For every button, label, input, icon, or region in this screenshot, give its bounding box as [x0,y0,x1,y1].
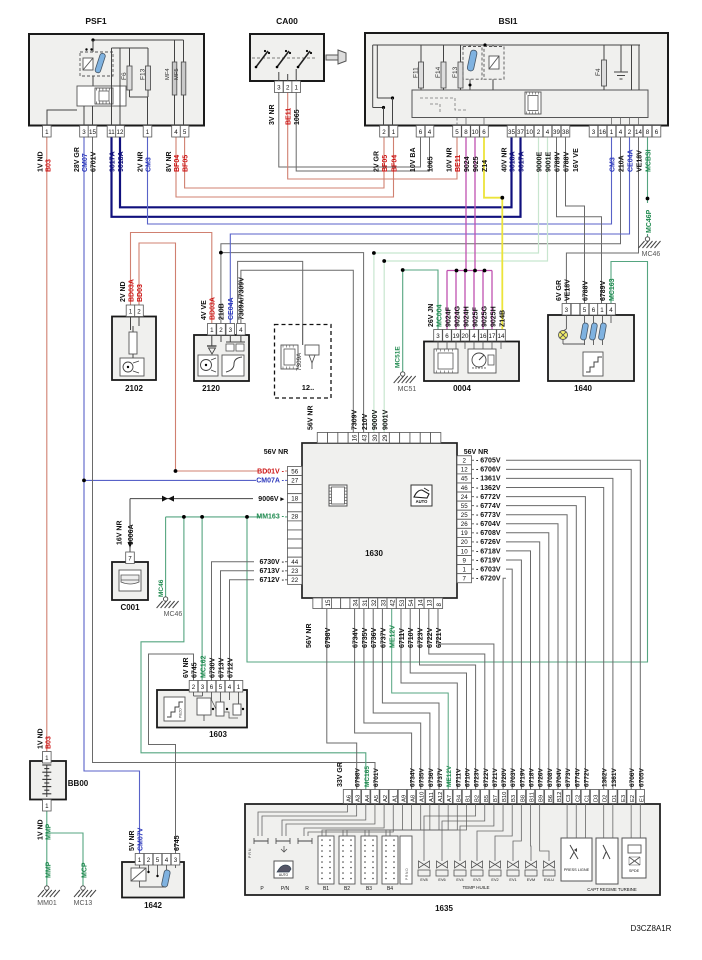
svg-text:P/N: P/N [281,886,290,892]
svg-text:3V NR: 3V NR [269,104,276,125]
svg-text:6701V: 6701V [91,151,98,172]
svg-text:4: 4 [428,129,432,136]
svg-text:5: 5 [156,857,160,864]
svg-text:A8: A8 [411,795,417,802]
svg-text:9025H: 9025H [491,306,498,327]
svg-text:56V NR: 56V NR [464,449,489,456]
svg-text:2: 2 [147,857,151,864]
svg-text:3: 3 [436,333,440,340]
svg-text:9017A: 9017A [110,151,117,172]
svg-text:18: 18 [291,496,298,503]
svg-text:6: 6 [655,129,659,136]
svg-text:PRESS LIGNE: PRESS LIGNE [564,868,590,872]
svg-text:34: 34 [353,599,360,606]
svg-text:CE04A: CE04A [228,297,235,320]
svg-text:VE18V: VE18V [565,279,572,301]
svg-text:39: 39 [553,129,560,136]
svg-text:B7: B7 [493,795,499,802]
svg-text:B8: B8 [520,795,526,802]
svg-text:53: 53 [399,599,406,606]
svg-text:7309V: 7309V [352,409,359,430]
svg-text:A4: A4 [365,794,371,802]
svg-text:1: 1 [237,684,241,691]
svg-text:A5: A5 [374,795,380,802]
svg-text:28: 28 [291,514,298,521]
svg-text:5: 5 [183,129,187,136]
svg-text:6798V: 6798V [355,768,362,787]
svg-text:9018A: 9018A [118,151,125,172]
svg-text:PIEZO: PIEZO [179,708,183,718]
svg-text:- 1362V: - 1362V [476,485,501,492]
svg-text:2: 2 [628,129,632,136]
svg-text:6708V: 6708V [547,768,554,787]
svg-text:2: 2 [382,129,386,136]
svg-text:5: 5 [219,684,223,691]
svg-text:9000E: 9000E [537,151,544,172]
svg-text:1: 1 [129,309,133,316]
svg-text:20: 20 [461,539,468,546]
svg-text:1635: 1635 [435,904,453,913]
svg-text:B03: B03 [46,736,53,749]
svg-text:E3: E3 [621,795,627,802]
svg-text:1: 1 [392,129,396,136]
svg-text:4V VE: 4V VE [201,300,208,320]
svg-text:MF5: MF5 [174,68,180,80]
svg-text:1: 1 [146,129,150,136]
svg-text:3: 3 [229,327,233,334]
svg-text:B2: B2 [344,886,350,892]
svg-text:- 6704V: - 6704V [476,521,501,528]
svg-text:6774V: 6774V [574,768,581,787]
svg-text:BB00: BB00 [68,779,89,788]
svg-text:6772V: 6772V [583,768,590,787]
svg-text:BSI1: BSI1 [499,16,518,26]
svg-text:EVM: EVM [527,878,535,882]
svg-text:9006V ▸: 9006V ▸ [258,496,284,503]
svg-text:26V JN: 26V JN [428,304,435,327]
svg-text:1V ND: 1V ND [38,728,45,749]
svg-text:16: 16 [599,129,606,136]
svg-text:A10: A10 [420,792,426,802]
svg-text:17: 17 [489,333,496,340]
svg-text:5: 5 [455,129,459,136]
svg-text:CAPT REGIME TURBINE: CAPT REGIME TURBINE [587,887,637,892]
svg-text:BF04: BF04 [174,155,181,172]
svg-text:PSF1: PSF1 [85,16,107,26]
svg-text:MC46: MC46 [642,251,661,258]
svg-text:EV4: EV4 [456,878,463,882]
svg-text:1: 1 [610,129,614,136]
svg-text:1: 1 [210,327,214,334]
svg-text:29: 29 [382,434,389,441]
svg-text:8: 8 [436,603,443,607]
svg-text:42: 42 [390,599,397,606]
svg-text:6710V: 6710V [464,768,471,787]
svg-text:12..: 12.. [302,383,315,392]
svg-text:C1: C1 [584,795,590,802]
svg-text:7309A: 7309A [296,352,303,371]
svg-text:2: 2 [192,684,196,691]
svg-text:- 6726V: - 6726V [476,539,501,546]
svg-text:- 6772V: - 6772V [476,494,501,501]
svg-text:BD03A: BD03A [129,279,136,302]
svg-text:14: 14 [417,599,424,606]
svg-text:1642: 1642 [144,901,162,910]
svg-text:MC165: MC165 [364,766,371,787]
svg-text:6721V: 6721V [492,768,499,787]
svg-text:P R N: P R N [248,848,252,858]
svg-text:6745: 6745 [174,835,181,851]
svg-text:A2: A2 [383,795,389,802]
svg-text:16V NR: 16V NR [117,520,124,545]
svg-text:MC46: MC46 [158,579,165,597]
svg-text:1630: 1630 [365,549,383,558]
svg-text:ME12V: ME12V [446,765,453,787]
svg-text:16: 16 [480,333,487,340]
svg-text:MMP: MMP [46,823,53,840]
svg-text:6721V: 6721V [436,627,443,648]
svg-text:210V: 210V [362,413,369,430]
svg-text:10V NR: 10V NR [447,147,454,172]
svg-text:F14: F14 [435,66,442,78]
svg-text:56V NR: 56V NR [264,449,289,456]
svg-text:B12: B12 [557,792,563,802]
svg-text:7309A/7309V: 7309A/7309V [239,277,246,320]
svg-text:6: 6 [445,333,449,340]
svg-text:TEMP HUILE: TEMP HUILE [463,885,490,890]
svg-text:15: 15 [325,599,332,606]
svg-text:A6: A6 [347,795,353,802]
svg-text:25: 25 [461,512,468,519]
svg-text:- 6708V: - 6708V [476,530,501,537]
svg-text:35: 35 [508,129,515,136]
svg-text:1361V: 1361V [611,768,618,787]
svg-text:6745: 6745 [192,662,199,678]
svg-text:6712V: 6712V [228,657,235,678]
svg-text:4: 4 [609,307,613,314]
svg-text:16: 16 [351,434,358,441]
svg-text:1: 1 [45,129,49,136]
svg-text:6722V: 6722V [483,768,490,787]
svg-text:37: 37 [517,129,524,136]
svg-text:2: 2 [286,85,290,92]
svg-text:6V NR: 6V NR [183,657,190,678]
svg-text:MC51E: MC51E [395,346,402,368]
svg-text:CM07A -: CM07A - [256,477,284,484]
svg-text:26: 26 [461,521,468,528]
svg-text:56V NR: 56V NR [306,623,313,648]
svg-text:6735V: 6735V [362,627,369,648]
svg-text:8: 8 [464,129,468,136]
svg-text:B03: B03 [46,159,53,172]
svg-text:C3: C3 [566,795,572,802]
svg-text:4: 4 [546,129,550,136]
svg-text:CM07: CM07 [82,153,89,172]
svg-text:B4: B4 [456,794,462,802]
svg-text:3: 3 [592,129,596,136]
svg-text:6730V: 6730V [210,657,217,678]
svg-text:B11: B11 [530,792,536,802]
svg-text:6798V: 6798V [325,627,332,648]
svg-text:8V NR: 8V NR [166,151,173,172]
svg-text:MC162: MC162 [201,655,208,678]
svg-text:4: 4 [619,129,623,136]
svg-text:3: 3 [82,129,86,136]
svg-text:12: 12 [461,467,468,474]
svg-text:AUTO: AUTO [279,873,289,877]
svg-text:5: 5 [583,307,587,314]
svg-text:B5: B5 [484,795,490,802]
svg-text:13: 13 [427,599,434,606]
svg-text:MC004: MC004 [437,304,444,327]
svg-text:6701V: 6701V [373,768,380,787]
svg-text:MC46P: MC46P [646,209,653,233]
svg-text:6718V: 6718V [529,768,536,787]
svg-text:5V NR: 5V NR [129,830,136,851]
svg-text:1: 1 [294,85,298,92]
svg-text:2102: 2102 [125,384,143,393]
svg-text:4: 4 [472,333,476,340]
svg-text:9001V: 9001V [382,409,389,430]
svg-text:C001: C001 [120,603,140,612]
svg-text:2120: 2120 [202,384,220,393]
svg-text:46: 46 [461,485,468,492]
svg-text:- 6773V: - 6773V [476,512,501,519]
svg-text:1362V: 1362V [602,768,609,787]
svg-text:9017A: 9017A [519,151,526,172]
svg-text:- 6706V: - 6706V [476,467,501,474]
svg-text:16V VE: 16V VE [573,148,580,172]
svg-text:4: 4 [174,129,178,136]
svg-text:8: 8 [646,129,650,136]
svg-text:B1: B1 [323,886,329,892]
svg-text:6: 6 [210,684,214,691]
svg-text:2: 2 [462,458,466,465]
svg-text:3: 3 [201,684,205,691]
svg-text:9025G: 9025G [482,305,489,327]
svg-text:P R N D: P R N D [405,868,409,880]
svg-text:B9: B9 [539,795,545,802]
svg-text:3: 3 [277,85,281,92]
svg-text:10: 10 [472,129,479,136]
svg-text:CM3: CM3 [146,157,153,172]
svg-text:7: 7 [128,556,132,563]
svg-text:1603: 1603 [209,730,227,739]
svg-text:1: 1 [600,307,604,314]
svg-text:55: 55 [461,503,468,510]
svg-text:6737V: 6737V [437,768,444,787]
svg-text:EV6: EV6 [438,878,445,882]
svg-text:6773V: 6773V [565,768,572,787]
svg-text:A3: A3 [356,795,362,802]
svg-text:3: 3 [565,307,569,314]
svg-text:6736V: 6736V [371,627,378,648]
svg-text:B3: B3 [511,795,517,802]
svg-text:4: 4 [165,857,169,864]
svg-text:6788V: 6788V [564,151,571,172]
svg-text:24: 24 [461,494,468,501]
svg-text:0004: 0004 [453,384,471,393]
svg-text:54: 54 [408,599,415,606]
svg-text:CA00: CA00 [276,16,298,26]
svg-text:2V ND: 2V ND [120,281,127,302]
svg-text:BF05: BF05 [183,155,190,172]
svg-text:C2: C2 [575,795,581,802]
svg-text:44: 44 [291,559,298,566]
svg-text:D3: D3 [594,795,600,802]
svg-text:6711V: 6711V [455,768,462,787]
svg-text:33V GR: 33V GR [337,762,344,787]
svg-text:- 6703V: - 6703V [476,566,501,573]
svg-text:BF05: BF05 [382,155,389,172]
svg-text:15: 15 [89,129,96,136]
svg-text:6706V: 6706V [629,768,636,787]
svg-text:9024F: 9024F [446,306,453,327]
svg-text:1: 1 [138,857,142,864]
svg-text:1065: 1065 [294,109,301,125]
svg-text:6726V: 6726V [538,768,545,787]
svg-text:EV1: EV1 [509,878,516,882]
svg-text:9: 9 [462,557,466,564]
svg-text:6705V: 6705V [638,768,645,787]
svg-text:6713V: 6713V [219,657,226,678]
svg-text:- 6719V: - 6719V [476,557,501,564]
svg-text:9025F: 9025F [473,306,480,327]
svg-text:22: 22 [291,577,298,584]
svg-text:B1: B1 [465,795,471,802]
svg-text:6734V: 6734V [353,627,360,648]
svg-text:12: 12 [117,129,124,136]
svg-text:19: 19 [453,333,460,340]
svg-text:A1: A1 [392,795,398,802]
svg-text:1V ND: 1V ND [38,819,45,840]
svg-text:23: 23 [291,568,298,575]
svg-text:MCBSI: MCBSI [646,149,653,172]
svg-text:6: 6 [482,129,486,136]
svg-text:6704V: 6704V [556,768,563,787]
svg-text:6723V: 6723V [474,768,481,787]
svg-text:SPDE: SPDE [629,869,640,873]
svg-text:210A: 210A [619,155,626,172]
svg-text:6722V: 6722V [427,627,434,648]
svg-text:BE11: BE11 [455,155,462,172]
svg-text:BD03A: BD03A [210,297,217,320]
svg-text:9018A: 9018A [510,151,517,172]
svg-text:MC46: MC46 [164,611,183,618]
svg-text:2: 2 [537,129,541,136]
svg-text:- 6720V: - 6720V [476,576,501,583]
svg-text:- 1361V: - 1361V [476,476,501,483]
svg-text:45: 45 [461,476,468,483]
svg-text:A11: A11 [429,792,435,802]
svg-text:10: 10 [461,548,468,555]
svg-text:4: 4 [239,327,243,334]
svg-text:F6: F6 [121,72,128,80]
svg-text:56V NR: 56V NR [308,405,315,430]
svg-text:6: 6 [592,307,596,314]
svg-text:MF4: MF4 [165,68,171,80]
svg-text:31: 31 [362,599,369,606]
svg-text:F4: F4 [595,68,602,76]
svg-text:210B: 210B [219,303,226,320]
svg-text:6710V: 6710V [408,627,415,648]
svg-text:1065: 1065 [428,156,435,172]
svg-text:2: 2 [137,309,141,316]
svg-text:6713V -: 6713V - [259,568,284,575]
svg-text:1: 1 [45,803,49,810]
svg-text:- 6774V: - 6774V [476,503,501,510]
svg-text:20: 20 [462,333,469,340]
svg-text:9024G: 9024G [455,305,462,327]
svg-text:10: 10 [526,129,533,136]
svg-text:BE11: BE11 [286,108,293,125]
svg-text:9001E: 9001E [546,151,553,172]
svg-text:6789V: 6789V [555,151,562,172]
svg-text:6736V: 6736V [428,768,435,787]
svg-text:27: 27 [291,477,298,484]
svg-text:EV8: EV8 [420,878,427,882]
svg-text:EV2: EV2 [491,878,498,882]
svg-text:6712V -: 6712V - [259,577,284,584]
svg-text:MC13: MC13 [74,900,93,907]
svg-text:6720V: 6720V [501,768,508,787]
svg-text:7: 7 [462,576,466,583]
svg-text:AUTO: AUTO [416,499,429,504]
svg-text:CM3: CM3 [610,157,617,172]
svg-text:30: 30 [372,434,379,441]
svg-text:6788V: 6788V [583,280,590,301]
svg-text:1640: 1640 [574,384,592,393]
svg-text:14: 14 [498,333,505,340]
svg-text:56: 56 [291,468,298,475]
svg-text:BD01V -: BD01V - [257,468,285,475]
svg-text:33: 33 [380,599,387,606]
svg-text:- 6718V: - 6718V [476,548,501,555]
svg-text:6735V: 6735V [419,768,426,787]
svg-text:28V GR: 28V GR [74,147,81,172]
svg-text:9025: 9025 [473,156,480,172]
svg-text:38: 38 [562,129,569,136]
svg-text:2: 2 [219,327,223,334]
svg-text:VE18V: VE18V [637,150,644,172]
svg-text:MC163: MC163 [609,278,616,301]
svg-text:MMP: MMP [46,861,53,878]
svg-text:2V NR: 2V NR [138,151,145,172]
svg-text:F11: F11 [413,67,420,78]
svg-text:B2: B2 [475,795,481,802]
svg-text:1: 1 [462,566,466,573]
svg-text:E1: E1 [639,795,645,802]
svg-text:6703V: 6703V [510,768,517,787]
svg-text:9024H: 9024H [464,306,471,327]
svg-text:32: 32 [371,599,378,606]
svg-text:R: R [305,886,309,892]
svg-text:6719V: 6719V [519,768,526,787]
svg-text:9006A: 9006A [128,524,135,545]
svg-text:B4: B4 [387,886,393,892]
svg-text:6V GR: 6V GR [556,280,563,301]
svg-text:19: 19 [461,530,468,537]
svg-text:E2: E2 [630,795,636,802]
svg-text:14: 14 [635,129,642,136]
svg-text:43: 43 [362,434,369,441]
svg-text:6734V: 6734V [410,768,417,787]
svg-text:A9: A9 [401,795,407,802]
svg-text:40V NR: 40V NR [502,147,509,172]
svg-text:1: 1 [45,755,49,762]
svg-text:F13: F13 [452,66,459,78]
svg-text:EV3: EV3 [473,878,480,882]
